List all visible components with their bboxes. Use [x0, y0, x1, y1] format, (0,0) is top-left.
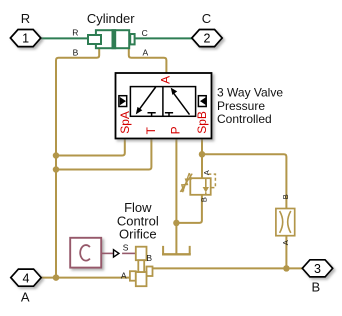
orifice right arc — [288, 211, 291, 233]
orifice left arc — [280, 211, 283, 233]
PS stub into S port — [122, 252, 136, 254]
svg-text:B: B — [281, 194, 290, 199]
right tab (port B) — [147, 267, 153, 277]
svg-text:P: P — [169, 126, 183, 134]
svg-text:SpA: SpA — [118, 111, 132, 134]
PS arrowhead — [114, 250, 119, 257]
wire: bottom-left rail from port 4 to Flow Control Orifice A — [41, 277, 131, 279]
relief valve body box — [190, 178, 210, 195]
flow control orifice block — [130, 247, 153, 287]
PS signal line from C block — [101, 252, 113, 254]
bottom rect — [136, 272, 147, 286]
svg-text:4: 4 — [23, 271, 30, 285]
relief valve pilot dashed line — [208, 174, 215, 188]
wire: relief valve outlet down-left to P line junction — [176, 195, 202, 223]
svg-text:2: 2 — [204, 32, 211, 46]
svg-text:3 Way Valve: 3 Way Valve — [217, 86, 283, 100]
svg-text:3: 3 — [314, 262, 321, 276]
svg-text:C: C — [142, 28, 148, 38]
right pilot actuator box — [198, 96, 206, 107]
svg-text:Controlled: Controlled — [217, 112, 272, 126]
wire: valve SpB down to relief valve inlet — [201, 138, 203, 178]
svg-text:A: A — [121, 271, 127, 281]
svg-text:B: B — [199, 197, 208, 202]
wire: valve P down to tank — [175, 138, 177, 253]
junction dot relief outlet into P line — [173, 220, 180, 227]
port 4 hexagon A — [11, 269, 41, 286]
cylinder barrel — [96, 30, 129, 48]
svg-text:SpB: SpB — [195, 111, 209, 134]
svg-text:B: B — [311, 279, 320, 294]
wire: bottom-right rail from Flow Control Orifice B to port 3 — [152, 267, 303, 269]
left tab (port A) — [130, 271, 136, 281]
wire: fixed orifice outlet down to bottom-right rail — [285, 236, 287, 269]
left pilot actuator box — [119, 96, 127, 107]
svg-text:A: A — [21, 289, 30, 304]
svg-text:Orifice: Orifice — [119, 227, 157, 242]
svg-text:S: S — [123, 242, 129, 252]
left pilot actuator triangle — [120, 97, 126, 105]
svg-text:A: A — [281, 240, 290, 245]
relief valve internal arrow — [205, 178, 207, 187]
junction dot fixed orifice outlet on bottom-right rail — [283, 265, 290, 272]
fixed orifice block (right) — [276, 209, 295, 236]
cylinder block Cylinder — [88, 29, 135, 49]
junction dot on left vertical at SpA row — [53, 152, 60, 159]
junction dot SpB branch — [199, 151, 206, 158]
svg-text:B: B — [146, 253, 152, 263]
wire: tan A line from Cylinder port A down-right-down to valve port A — [129, 49, 167, 74]
junction dot on bottom-left rail — [53, 274, 60, 281]
wire: green R line from port 1 to Cylinder rod — [41, 37, 88, 39]
wire: tan B line from Cylinder port B down-left-down to bottom junction — [56, 49, 99, 278]
svg-text:Pressure: Pressure — [217, 99, 265, 113]
svg-text:A: A — [202, 170, 211, 175]
svg-text:Cylinder: Cylinder — [87, 11, 135, 26]
port 3 hexagon B — [302, 260, 332, 277]
cylinder piston — [112, 29, 117, 49]
port 2 hexagon C — [192, 30, 222, 47]
left cell flow arrow — [139, 87, 156, 110]
svg-text:T: T — [144, 126, 158, 134]
right cell blocked port T-mark — [165, 113, 173, 117]
svg-text:R: R — [72, 28, 78, 38]
wire: valve SpA to left vertical — [56, 138, 125, 155]
relief valve: pressure relief valve — [180, 173, 215, 195]
junction dot on left vertical at T row — [53, 166, 60, 173]
cylinder rod — [88, 35, 101, 44]
right pilot actuator triangle — [200, 97, 206, 105]
svg-text:B: B — [73, 47, 79, 57]
svg-text:A: A — [143, 47, 149, 57]
svg-text:R: R — [21, 11, 30, 26]
valve body divider — [162, 87, 164, 117]
relief valve spring — [181, 173, 192, 191]
left cell blocked port T-mark — [148, 113, 156, 117]
tank symbol — [162, 246, 191, 254]
right cell flow arrow — [174, 93, 190, 114]
valve block U1: 3 Way Valve Pressure Controlled — [116, 73, 212, 139]
svg-text:1: 1 — [22, 32, 29, 46]
svg-text:C: C — [202, 11, 211, 26]
wire: green C line from Cylinder cap to port 2 — [135, 37, 192, 39]
top rect — [136, 247, 147, 261]
letter C glyph — [80, 245, 90, 261]
valve body two-position rectangle — [130, 87, 195, 117]
middle rect — [138, 260, 144, 272]
port 1 hexagon R — [10, 30, 40, 47]
cylinder cap — [130, 34, 134, 44]
wire: valve T to left vertical — [56, 138, 151, 169]
constant block C — [70, 238, 101, 268]
svg-text:A: A — [159, 76, 173, 84]
wire: SpB branch right and down to fixed orifice top — [202, 154, 286, 208]
